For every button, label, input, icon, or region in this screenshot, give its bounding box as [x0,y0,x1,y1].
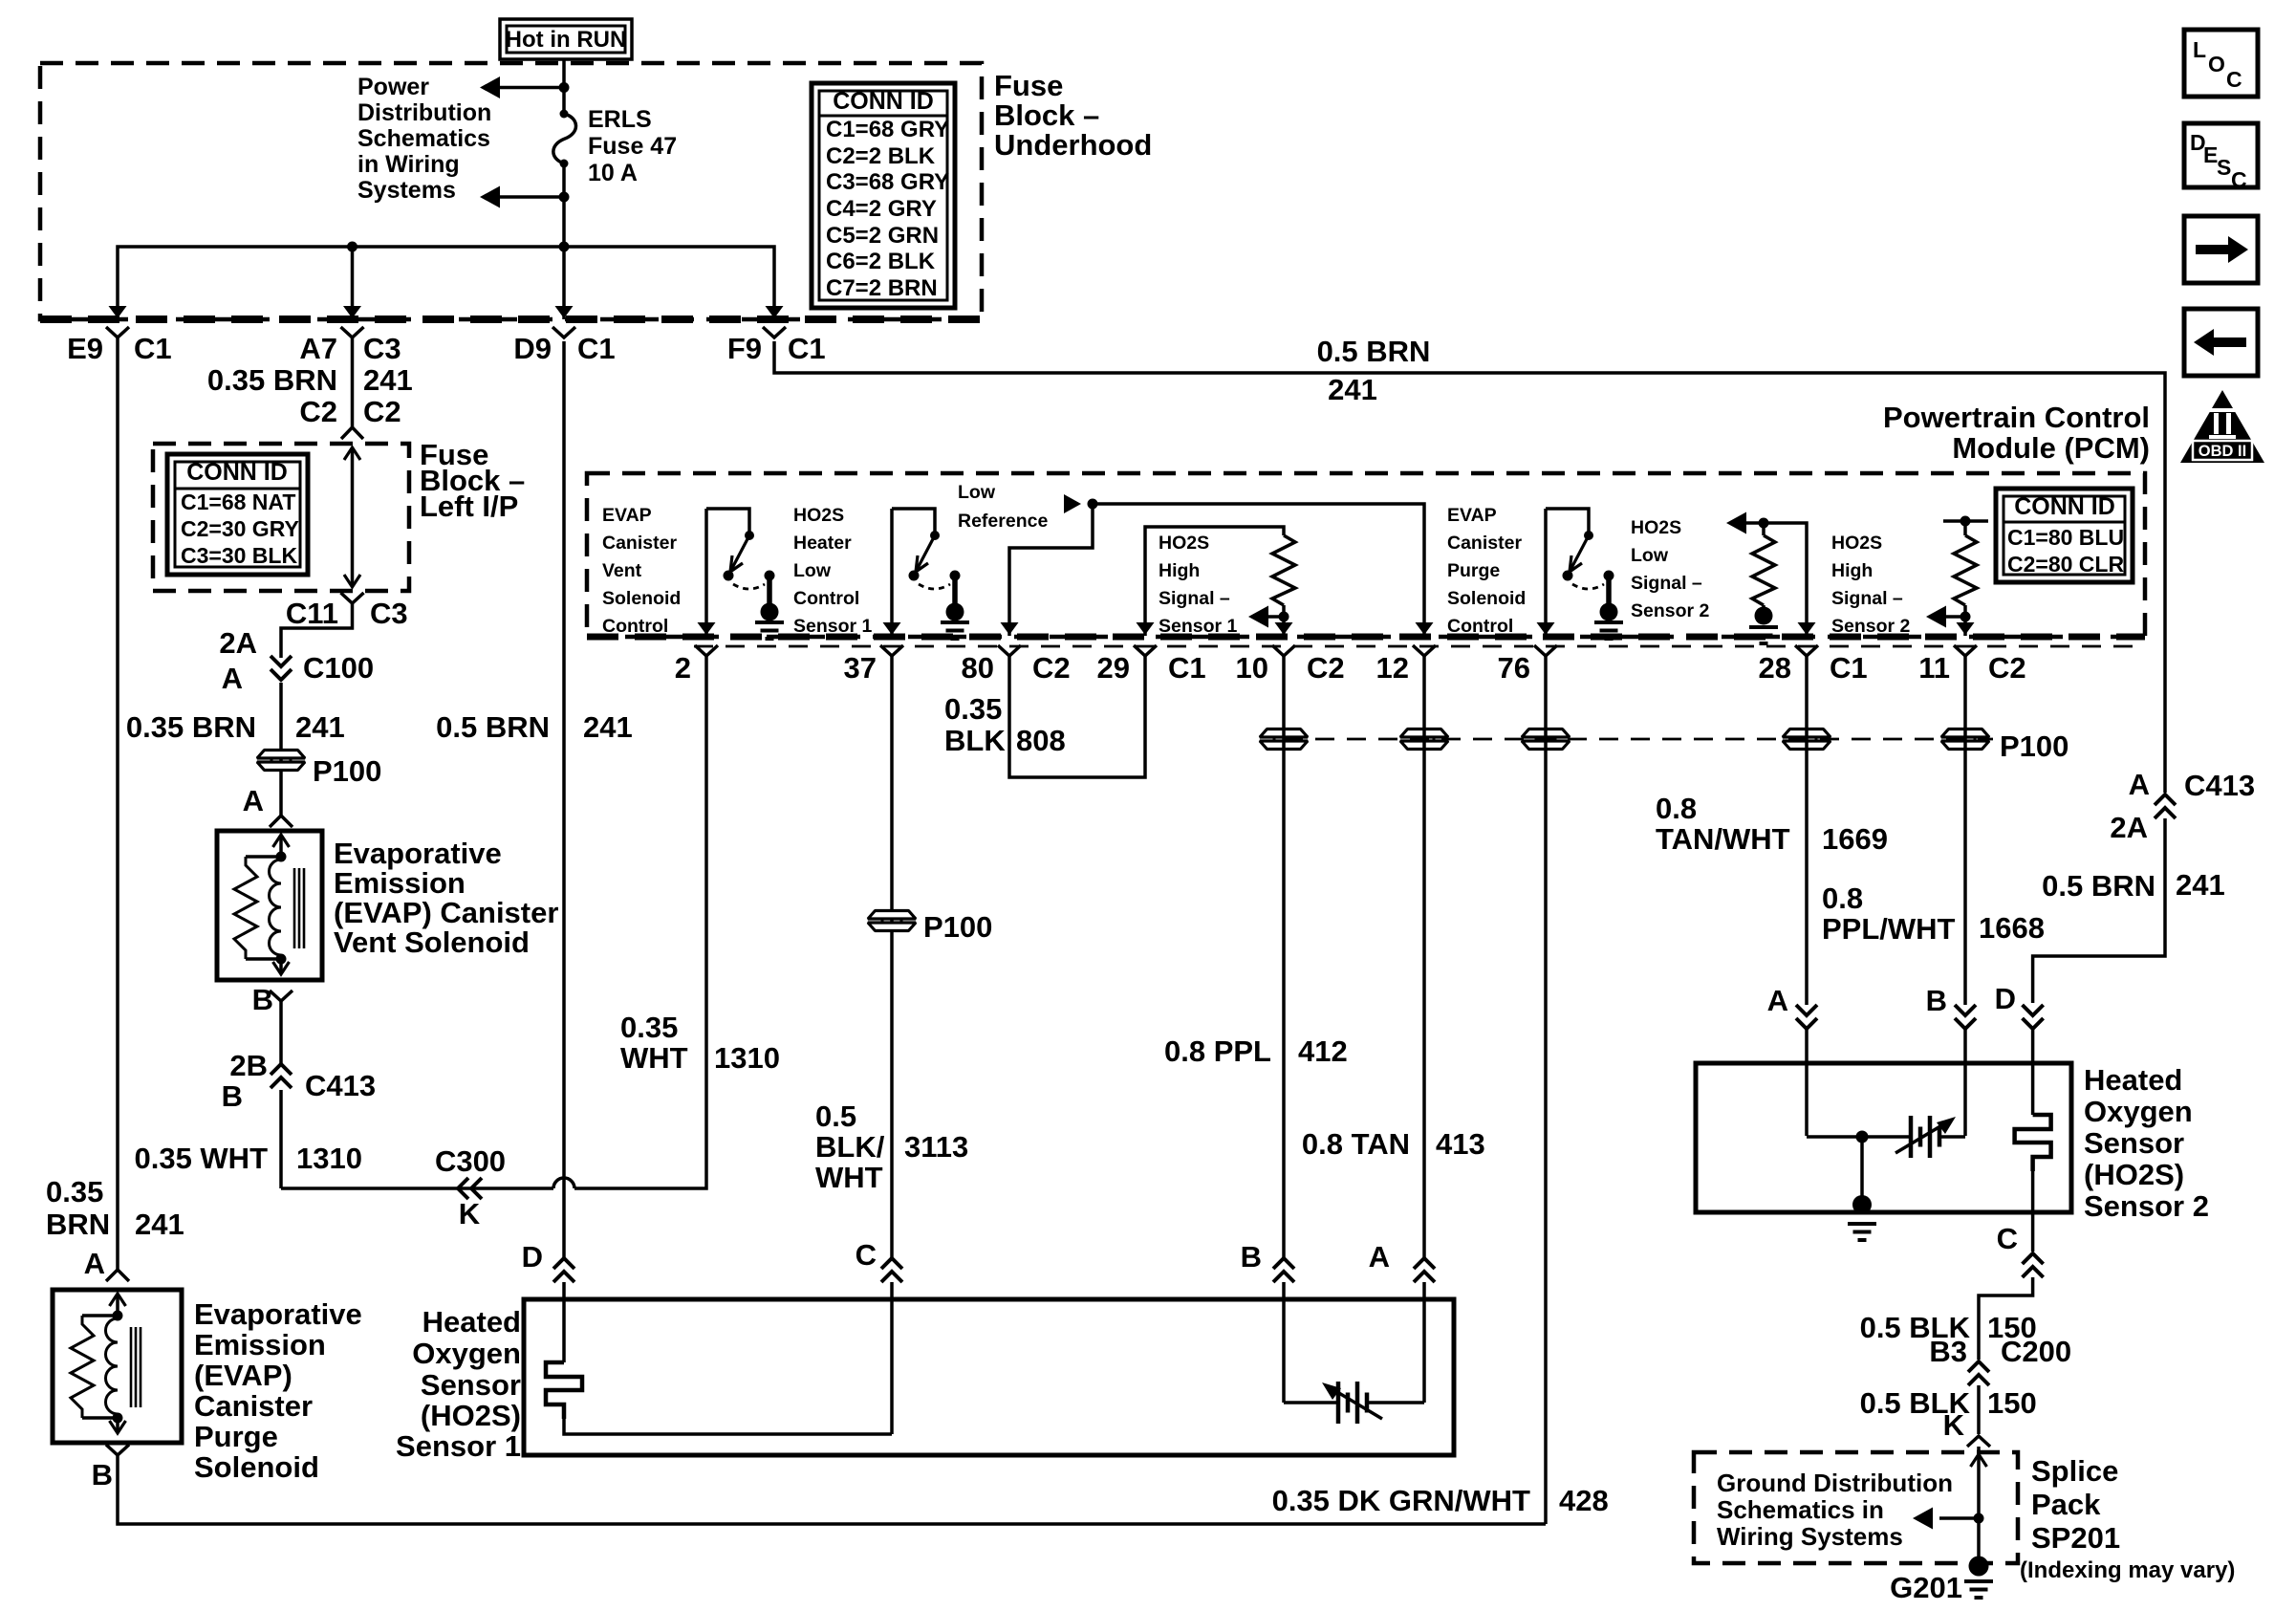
svg-text:2A: 2A [219,626,257,660]
svg-text:C2: C2 [363,395,401,428]
svg-text:C3: C3 [370,597,408,630]
svg-text:428: 428 [1559,1484,1609,1517]
svg-text:10: 10 [1236,651,1268,685]
svg-text:1668: 1668 [1979,911,2045,945]
svg-text:Systems: Systems [357,177,456,204]
svg-text:ERLS: ERLS [588,106,652,133]
svg-text:808: 808 [1016,724,1066,757]
svg-text:B: B [92,1458,113,1491]
svg-text:Sensor 2: Sensor 2 [1631,600,1710,621]
svg-text:0.8 TAN: 0.8 TAN [1302,1127,1410,1161]
svg-text:Low: Low [958,482,996,503]
svg-text:C200: C200 [2001,1335,2071,1368]
svg-text:EVAP: EVAP [1447,505,1497,526]
svg-text:413: 413 [1436,1127,1485,1161]
svg-text:C: C [1997,1222,2018,1255]
svg-text:241: 241 [295,710,345,744]
svg-text:3113: 3113 [904,1130,968,1164]
svg-text:Vent: Vent [602,560,642,581]
svg-text:C2: C2 [1032,651,1071,685]
svg-text:K: K [1943,1408,1965,1442]
svg-text:37: 37 [844,651,877,685]
svg-text:(Indexing may vary): (Indexing may vary) [2020,1557,2235,1583]
svg-text:1310: 1310 [296,1142,362,1175]
svg-text:A: A [1369,1240,1390,1274]
svg-text:Fuse 47: Fuse 47 [588,133,677,160]
svg-text:241: 241 [2176,868,2225,902]
svg-text:241: 241 [583,710,633,744]
svg-text:SP201: SP201 [2031,1521,2120,1555]
svg-text:Power: Power [357,74,429,100]
svg-text:0.8: 0.8 [1822,882,1863,915]
svg-text:Schematics in: Schematics in [1717,1495,1884,1524]
svg-text:0.8: 0.8 [1656,792,1697,825]
svg-text:Control: Control [1447,616,1513,637]
svg-text:Canister: Canister [1447,533,1522,554]
svg-text:B: B [1241,1240,1262,1274]
svg-text:EVAP: EVAP [602,505,652,526]
svg-text:Low: Low [1631,545,1669,566]
svg-text:(HO2S): (HO2S) [421,1399,521,1432]
svg-text:Oxygen: Oxygen [2084,1095,2193,1128]
svg-text:Purge: Purge [194,1420,278,1453]
svg-text:TAN/WHT: TAN/WHT [1656,822,1790,856]
svg-text:2B: 2B [229,1049,268,1082]
svg-text:(EVAP) Canister: (EVAP) Canister [334,896,558,929]
svg-text:Signal –: Signal – [1159,588,1230,609]
svg-text:BRN: BRN [46,1208,110,1241]
svg-text:Left I/P: Left I/P [420,490,518,523]
svg-text:Control: Control [793,588,859,609]
svg-text:0.35: 0.35 [620,1011,678,1044]
svg-text:C4=2 GRY: C4=2 GRY [826,196,937,222]
svg-text:Block –: Block – [994,98,1099,132]
svg-text:D9: D9 [513,332,552,365]
svg-text:C1=68 GRY: C1=68 GRY [826,117,949,142]
svg-text:Emission: Emission [334,866,466,900]
svg-text:241: 241 [135,1208,184,1241]
svg-text:Heated: Heated [2084,1063,2182,1097]
svg-text:Oxygen: Oxygen [412,1337,521,1370]
svg-text:Powertrain Control: Powertrain Control [1883,401,2150,434]
svg-text:High: High [1159,560,1200,581]
svg-text:Signal –: Signal – [1631,573,1702,594]
svg-text:0.5 BRN: 0.5 BRN [2042,869,2155,903]
svg-text:12: 12 [1376,651,1409,685]
svg-text:WHT: WHT [620,1041,688,1075]
svg-text:B: B [222,1079,243,1113]
svg-text:D: D [522,1240,543,1274]
svg-text:Canister: Canister [194,1389,313,1423]
svg-text:P100: P100 [2000,729,2069,763]
svg-text:C1=68 NAT: C1=68 NAT [181,490,295,514]
svg-text:241: 241 [1328,373,1377,406]
svg-text:Sensor: Sensor [2084,1126,2184,1160]
svg-text:Splice: Splice [2031,1454,2118,1488]
svg-text:0.8 PPL: 0.8 PPL [1164,1034,1271,1068]
svg-text:A7: A7 [299,332,337,365]
svg-text:A: A [84,1247,105,1280]
svg-text:0.5: 0.5 [815,1099,856,1133]
svg-text:C2=2 BLK: C2=2 BLK [826,143,936,169]
svg-text:B: B [1926,984,1947,1017]
svg-text:HO2S: HO2S [1831,533,1882,554]
svg-text:BLK: BLK [944,724,1006,757]
svg-text:C3=68 GRY: C3=68 GRY [826,169,949,195]
svg-text:P100: P100 [313,754,381,788]
svg-text:Reference: Reference [958,511,1048,532]
svg-text:10 A: 10 A [588,160,638,186]
svg-text:HO2S: HO2S [1631,517,1681,538]
svg-text:C413: C413 [305,1069,376,1102]
svg-text:C2=30 GRY: C2=30 GRY [181,516,299,541]
svg-text:C1: C1 [577,332,616,365]
svg-text:Schematics: Schematics [357,125,490,152]
svg-text:C2: C2 [1307,651,1345,685]
svg-text:0.5 BRN: 0.5 BRN [436,710,550,744]
svg-text:C2: C2 [1988,651,2026,685]
svg-text:Evaporative: Evaporative [334,837,502,870]
svg-text:Module (PCM): Module (PCM) [1952,431,2150,465]
svg-text:0.35 DK GRN/WHT: 0.35 DK GRN/WHT [1272,1484,1530,1517]
svg-text:CONN ID: CONN ID [833,88,934,115]
svg-text:C7=2 BRN: C7=2 BRN [826,275,938,301]
svg-text:C5=2 GRN: C5=2 GRN [826,223,939,249]
svg-text:(EVAP): (EVAP) [194,1359,292,1392]
svg-text:C3: C3 [363,332,401,365]
svg-text:28: 28 [1759,651,1791,685]
svg-text:0.5 BRN: 0.5 BRN [1317,335,1431,368]
svg-text:C100: C100 [303,651,374,685]
svg-text:Signal –: Signal – [1831,588,1903,609]
svg-text:241: 241 [363,363,413,397]
svg-text:C1: C1 [1168,651,1206,685]
svg-text:Sensor 2: Sensor 2 [1831,616,1911,637]
svg-text:BLK/: BLK/ [815,1130,885,1164]
svg-text:C3=30 BLK: C3=30 BLK [181,543,297,568]
svg-text:Heated: Heated [422,1305,521,1339]
svg-text:Fuse: Fuse [994,69,1063,102]
svg-text:PPL/WHT: PPL/WHT [1822,912,1956,946]
svg-text:Solenoid: Solenoid [1447,588,1526,609]
svg-text:1310: 1310 [714,1041,780,1075]
svg-text:Control: Control [602,616,668,637]
svg-text:WHT: WHT [815,1161,883,1194]
svg-text:C1: C1 [1830,651,1868,685]
svg-text:C: C [856,1238,877,1272]
svg-text:in Wiring: in Wiring [357,151,460,178]
svg-text:Distribution: Distribution [357,99,491,126]
svg-text:Sensor 1: Sensor 1 [396,1429,521,1463]
svg-text:Sensor: Sensor [421,1368,521,1402]
svg-text:A: A [243,784,264,817]
svg-text:Low: Low [793,560,832,581]
svg-text:C11: C11 [286,597,338,630]
svg-text:C: C [2231,167,2247,192]
svg-text:C2: C2 [299,395,337,428]
svg-text:11: 11 [1918,651,1950,685]
svg-text:C2=80 CLR: C2=80 CLR [2007,552,2124,577]
svg-text:0.35: 0.35 [944,692,1002,726]
svg-text:B3: B3 [1929,1335,1967,1368]
svg-text:C: C [2226,67,2242,92]
svg-text:Solenoid: Solenoid [194,1450,319,1484]
svg-text:Sensor 2: Sensor 2 [2084,1189,2209,1223]
svg-text:F9: F9 [727,332,762,365]
svg-text:76: 76 [1498,651,1530,685]
svg-text:A: A [1767,984,1788,1017]
svg-text:High: High [1831,560,1873,581]
svg-text:412: 412 [1298,1034,1348,1068]
svg-text:S: S [2217,155,2231,180]
svg-text:Canister: Canister [602,533,677,554]
svg-text:C413: C413 [2184,769,2255,802]
svg-text:Vent Solenoid: Vent Solenoid [334,925,530,959]
svg-text:Heater: Heater [793,533,852,554]
svg-text:G201: G201 [1890,1571,1962,1604]
svg-text:Hot in RUN: Hot in RUN [506,27,627,53]
svg-text:OBD II: OBD II [2199,443,2246,460]
svg-text:C1=80 BLU: C1=80 BLU [2007,525,2124,550]
svg-text:Evaporative: Evaporative [194,1297,362,1331]
svg-text:Pack: Pack [2031,1488,2101,1521]
svg-text:A: A [2129,768,2150,801]
svg-text:(HO2S): (HO2S) [2084,1158,2184,1191]
svg-text:CONN ID: CONN ID [2014,493,2115,520]
svg-text:L: L [2193,37,2206,62]
svg-text:C300: C300 [435,1144,506,1178]
svg-text:D: D [1995,982,2016,1015]
svg-text:C1: C1 [788,332,826,365]
svg-text:1669: 1669 [1822,822,1888,856]
svg-text:Sensor 1: Sensor 1 [793,616,873,637]
svg-text:E9: E9 [67,332,103,365]
svg-text:2A: 2A [2110,811,2148,844]
svg-text:C6=2 BLK: C6=2 BLK [826,249,936,274]
svg-text:Purge: Purge [1447,560,1500,581]
svg-text:A: A [222,662,243,695]
svg-text:Ground Distribution: Ground Distribution [1717,1469,1953,1497]
svg-text:HO2S: HO2S [1159,533,1209,554]
svg-text:Underhood: Underhood [994,128,1152,162]
svg-text:C1: C1 [134,332,172,365]
svg-text:29: 29 [1097,651,1130,685]
svg-text:Emission: Emission [194,1328,326,1361]
svg-text:HO2S: HO2S [793,505,844,526]
svg-text:0.35 BRN: 0.35 BRN [207,363,337,397]
svg-text:150: 150 [1987,1386,2037,1420]
svg-text:80: 80 [962,651,994,685]
svg-text:K: K [459,1197,481,1230]
svg-text:2: 2 [675,651,691,685]
svg-text:P100: P100 [923,910,992,944]
svg-text:CONN ID: CONN ID [186,459,288,486]
svg-text:0.35 BRN: 0.35 BRN [126,710,256,744]
svg-text:Sensor 1: Sensor 1 [1159,616,1238,637]
svg-text:0.35 WHT: 0.35 WHT [134,1142,268,1175]
svg-text:O: O [2208,52,2225,76]
svg-text:Wiring Systems: Wiring Systems [1717,1522,1903,1551]
svg-text:B: B [252,983,273,1016]
svg-text:0.35: 0.35 [46,1175,103,1208]
svg-text:Solenoid: Solenoid [602,588,681,609]
